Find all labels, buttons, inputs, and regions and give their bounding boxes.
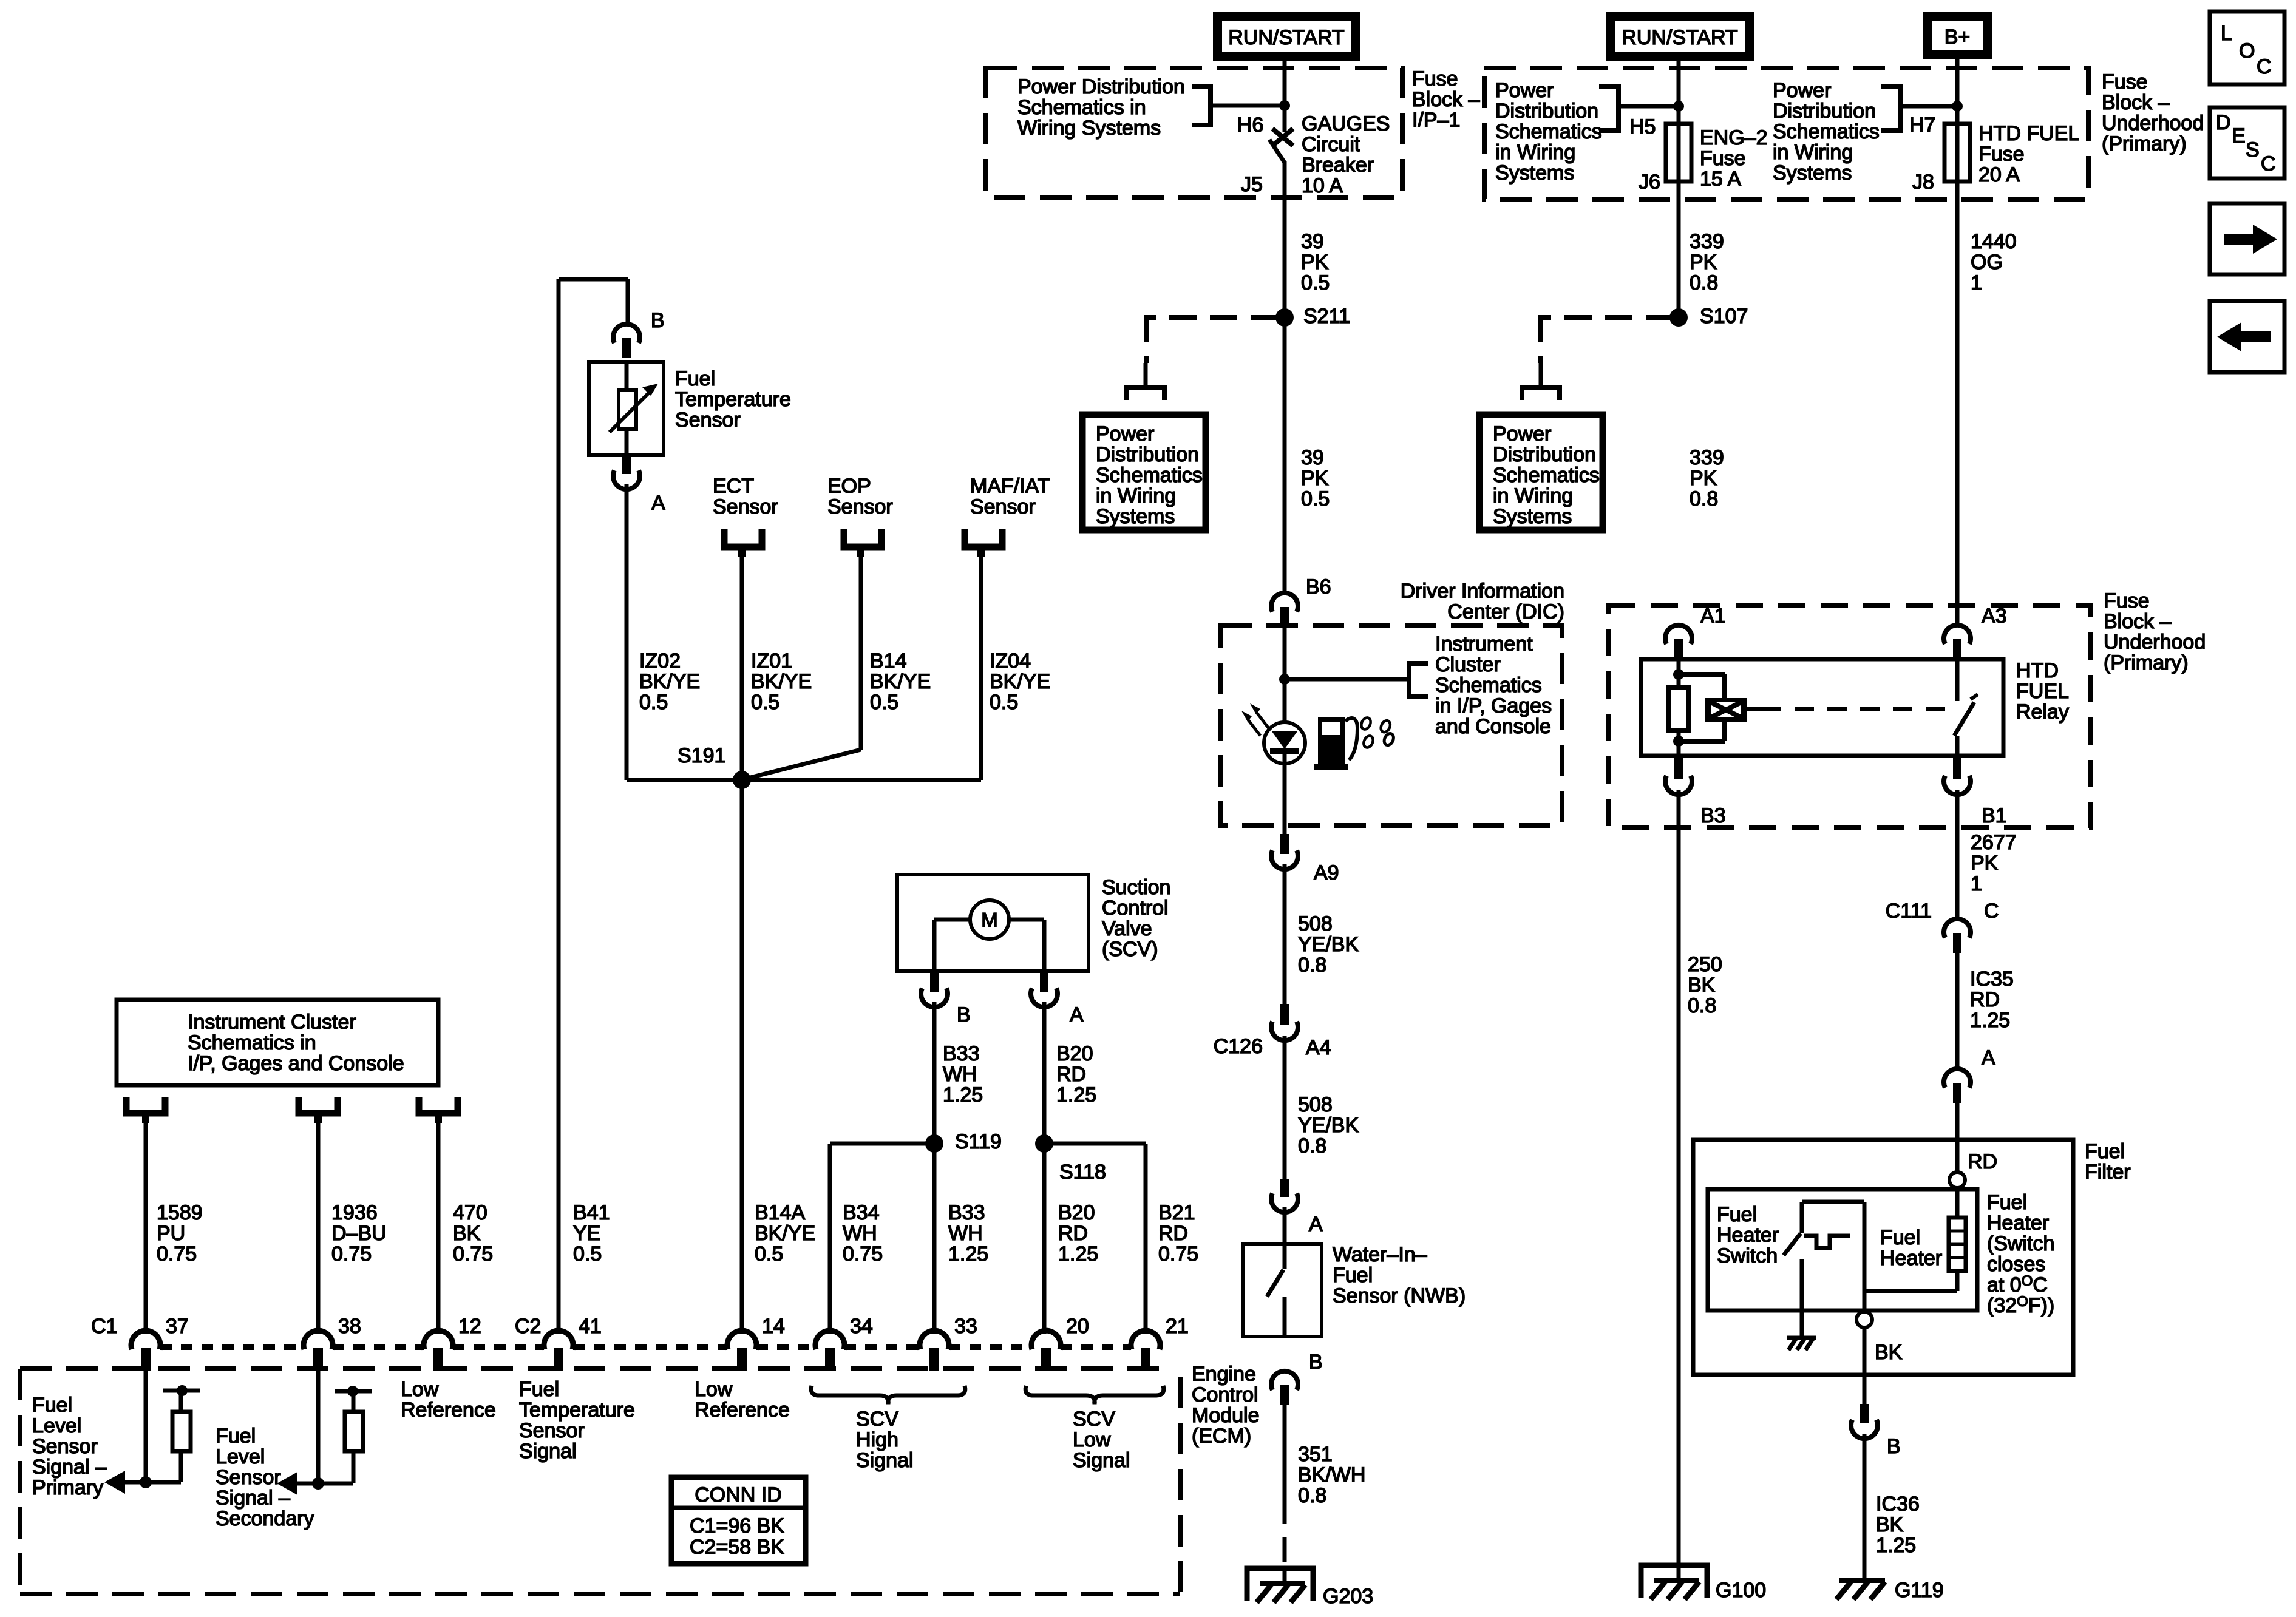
svg-text:21: 21 — [1166, 1315, 1189, 1338]
svg-text:H5: H5 — [1629, 115, 1656, 138]
svg-text:B33WH1.25: B33WH1.25 — [948, 1201, 988, 1266]
svg-text:RD: RD — [1968, 1150, 1997, 1173]
wire lamp to A9 — [1283, 753, 1287, 835]
fuel heater switch — [1800, 1202, 1804, 1233]
wire B1 to C111 — [1955, 790, 1960, 920]
node junction H7 feed — [1952, 101, 1963, 112]
connector C126/A4 — [1280, 1004, 1289, 1025]
wire RUN/START-1 to breaker — [1283, 61, 1287, 132]
svg-text:G203: G203 — [1323, 1585, 1373, 1608]
connector B1 — [1953, 756, 1961, 779]
suction control valve box — [897, 875, 1089, 971]
svg-text:A4: A4 — [1306, 1036, 1331, 1059]
connector face cluster pin 12 — [419, 1097, 458, 1113]
wire B to G119 — [1863, 1434, 1867, 1581]
svg-text:C2=58 BK: C2=58 BK — [690, 1536, 784, 1559]
connector face cluster pin 37 — [126, 1097, 165, 1113]
bracket instrument cluster (DIC) — [1409, 663, 1428, 696]
ECM dashed box — [20, 1366, 1173, 1371]
ECM connector pin 20 — [1031, 1331, 1061, 1349]
node S191 — [733, 771, 751, 789]
wire pin 37 into ECM — [144, 1367, 148, 1482]
svg-text:S211: S211 — [1303, 305, 1350, 328]
svg-text:J5: J5 — [1241, 173, 1263, 196]
wire C111 to A — [1955, 953, 1960, 1070]
wire S211 to B6 — [1283, 317, 1287, 594]
fuse ENG-2 15A — [1666, 124, 1691, 181]
wire fuse HTD FUEL down to relay A3 — [1955, 181, 1960, 626]
wire BK to connector B — [1863, 1327, 1867, 1405]
dashed branch from S107 to power distribution box — [1541, 315, 1673, 320]
svg-text:C: C — [2257, 55, 2272, 78]
svg-text:RUN/START: RUN/START — [1622, 26, 1737, 49]
node junction H6 feed — [1279, 100, 1290, 111]
svg-text:33: 33 — [954, 1315, 977, 1338]
svg-text:A3: A3 — [1982, 605, 2007, 628]
svg-text:C2: C2 — [515, 1315, 541, 1338]
svg-text:C: C — [2261, 152, 2276, 175]
svg-text:G119: G119 — [1895, 1579, 1944, 1602]
wire cluster to pin 38 — [316, 1120, 321, 1334]
svg-text:B33WH1.25: B33WH1.25 — [943, 1042, 983, 1107]
svg-text:BK: BK — [1875, 1341, 1903, 1364]
wire A9 to C126 — [1283, 864, 1287, 1005]
mini ground (heater switch) — [1787, 1336, 1816, 1340]
SCV motor — [970, 900, 1009, 939]
svg-text:41: 41 — [579, 1315, 602, 1338]
svg-text:E: E — [2232, 124, 2246, 147]
fuse block underhood dashed box — [1484, 68, 2088, 199]
svg-text:34: 34 — [850, 1315, 873, 1338]
svg-text:G100: G100 — [1716, 1579, 1766, 1602]
fuel filter outer box — [1693, 1140, 2073, 1375]
svg-text:14: 14 — [762, 1315, 785, 1338]
relay dashed box (fuse block underhood) — [1608, 605, 2091, 828]
wire pin 38 into ECM — [316, 1367, 321, 1483]
power feed box RUN/START (I/P fuse block feed) — [1213, 12, 1360, 61]
relay HTD FUEL solid box — [1641, 659, 2003, 756]
svg-text:37: 37 — [166, 1315, 189, 1338]
svg-text:L: L — [2221, 22, 2232, 45]
ECM connector pin 37 — [131, 1331, 160, 1349]
node S119 — [925, 1134, 943, 1153]
svg-text:C: C — [1984, 900, 1999, 923]
connector B fuel temp sensor — [613, 324, 640, 343]
svg-text:O: O — [2239, 39, 2255, 63]
connector A SCV — [1040, 971, 1048, 992]
wire S119 to pin 33 — [932, 1144, 937, 1334]
fuel heater inner box — [1708, 1189, 1977, 1310]
fuel level sender resistor (secondary) — [318, 1482, 353, 1486]
solid box Power Distribution Schematics (left) — [1082, 415, 1206, 530]
connector B6 — [1271, 593, 1298, 612]
relay actuator dashed line — [1747, 707, 1762, 711]
wire B3 to G100 — [1677, 790, 1681, 1581]
wire breaker to S211 — [1283, 161, 1287, 317]
connector face EOP sensor — [844, 529, 881, 547]
svg-text:B1: B1 — [1982, 804, 2007, 827]
ground G119 — [1839, 1578, 1885, 1583]
ECM connector dotted line — [160, 1344, 304, 1350]
svg-text:A9: A9 — [1314, 861, 1339, 884]
svg-text:S191: S191 — [678, 744, 725, 767]
connector face ECT sensor — [724, 529, 762, 547]
connector A water-in-fuel — [1280, 1179, 1289, 1197]
svg-text:EngineControlModule(ECM): EngineControlModule(ECM) — [1192, 1363, 1260, 1448]
wire B+ into fuse — [1955, 59, 1960, 124]
svg-text:C111: C111 — [1886, 900, 1932, 923]
wire fuse ENG-2 to S107 — [1677, 181, 1681, 317]
ground G100 — [1641, 1565, 1707, 1598]
svg-text:H6: H6 — [1237, 114, 1263, 137]
svg-text:20: 20 — [1066, 1315, 1089, 1338]
connector A9 — [1280, 834, 1289, 854]
svg-text:S107: S107 — [1700, 305, 1748, 328]
svg-text:RUN/START: RUN/START — [1228, 26, 1344, 49]
circuit breaker H6 (X and blade) — [1272, 129, 1293, 146]
svg-text:A: A — [1309, 1213, 1323, 1236]
wire SCV B to S119 — [932, 1002, 937, 1144]
connector A1 — [1665, 625, 1692, 644]
svg-text:C1: C1 — [91, 1315, 117, 1338]
connector B SCV — [930, 971, 939, 992]
fuel pump icon — [1318, 717, 1345, 768]
connector A fuel filter — [1944, 1069, 1971, 1088]
indicator lamp (LED) fuel warning — [1264, 722, 1305, 764]
wire S191 to pin 14 — [740, 780, 744, 1334]
terminal RD circle — [1949, 1172, 1965, 1188]
svg-text:B: B — [651, 309, 665, 332]
ECM connector pin 34 — [815, 1331, 844, 1349]
svg-text:B: B — [1309, 1351, 1323, 1374]
wire A to water sensor — [1283, 1207, 1287, 1244]
DIC dashed box — [1220, 625, 1562, 825]
fuse HTD FUEL 20A — [1944, 124, 1970, 181]
svg-text:S118: S118 — [1059, 1161, 1106, 1184]
fuel temperature sensor box — [589, 362, 664, 455]
terminal BK circle — [1856, 1312, 1872, 1327]
svg-text:A1: A1 — [1700, 605, 1726, 628]
power feed box B+ — [1923, 12, 1992, 59]
svg-text:A: A — [1982, 1046, 1995, 1070]
fuel heater element — [1955, 1188, 1960, 1218]
connector C111/C — [1944, 919, 1971, 938]
ECM connector pin 12 — [424, 1331, 453, 1349]
svg-text:A: A — [1070, 1003, 1084, 1026]
wire B6 to lamp — [1283, 625, 1287, 722]
dashed wire to G203 — [1283, 1499, 1287, 1568]
svg-text:S: S — [2246, 138, 2260, 161]
svg-text:12: 12 — [458, 1315, 481, 1338]
ECM connector pin 41 — [544, 1331, 573, 1349]
branch S118 to pin 21 — [1044, 1142, 1146, 1146]
connector B (fuel heater) — [1860, 1404, 1869, 1423]
wire RUN/START-2 into fuse — [1677, 61, 1681, 124]
legend box LOC — [2210, 12, 2284, 84]
svg-text:B: B — [1887, 1435, 1901, 1458]
svg-text:FuelFilter: FuelFilter — [2085, 1140, 2131, 1184]
svg-text:B: B — [957, 1003, 971, 1026]
node S107 — [1669, 308, 1688, 327]
connector face MAF/IAT sensor — [965, 529, 1002, 547]
legend box arrow-right — [2210, 203, 2284, 274]
svg-text:B34WH0.75: B34WH0.75 — [843, 1201, 883, 1266]
svg-text:H7: H7 — [1909, 114, 1935, 137]
wire B to label 351 — [1283, 1402, 1287, 1499]
fuel level sensor signal primary arrow — [124, 1480, 146, 1485]
svg-text:D: D — [2216, 111, 2231, 134]
wire fuel temp A to S191 — [625, 484, 629, 780]
CONN ID table — [671, 1477, 806, 1564]
wire SCV A to S118 — [1042, 1002, 1047, 1144]
ground G203 — [1247, 1568, 1313, 1601]
wire MAF/IAT to S191 — [979, 552, 983, 780]
wire A to fuel filter — [1955, 1103, 1960, 1178]
connector B ECM pin — [1271, 1371, 1298, 1390]
brace SCV low signal — [1025, 1386, 1164, 1404]
water-in-fuel sensor box — [1243, 1244, 1322, 1337]
relay coil branch — [1677, 659, 1681, 688]
connector A fuel temp sensor — [622, 455, 631, 474]
svg-text:C126: C126 — [1214, 1035, 1263, 1058]
svg-text:J6: J6 — [1639, 171, 1660, 194]
bracket to H7 — [1881, 87, 1901, 131]
fuel level sender resistor (primary) — [146, 1480, 181, 1485]
svg-text:B3: B3 — [1700, 804, 1726, 827]
water-in-fuel switch — [1283, 1244, 1287, 1269]
ECM connector pin 21 — [1131, 1331, 1160, 1349]
fuse block I/P-1 dashed box — [986, 68, 1402, 197]
node S211 — [1275, 308, 1294, 327]
node junction H5 feed — [1673, 101, 1684, 112]
svg-text:J8: J8 — [1912, 171, 1934, 194]
legend box DESC — [2210, 107, 2284, 178]
svg-text:38: 38 — [338, 1315, 361, 1338]
wire EOP to S191 — [859, 552, 863, 750]
node S118 — [1035, 1134, 1053, 1153]
wire DIC branch to bracket — [1285, 677, 1409, 682]
relay switch — [1955, 659, 1960, 701]
legend box arrow-left — [2210, 301, 2284, 372]
node DIC branch — [1279, 674, 1290, 685]
connector face cluster pin 38 — [299, 1097, 338, 1113]
bracket to H6 — [1192, 86, 1211, 125]
svg-text:CONN ID: CONN ID — [695, 1483, 782, 1507]
svg-text:A: A — [651, 492, 665, 515]
dashed branch from S211 to power distribution box — [1147, 315, 1278, 320]
svg-text:C1=96 BK: C1=96 BK — [690, 1514, 784, 1537]
svg-text:S119: S119 — [955, 1130, 1002, 1153]
branch S119 to pin 34 — [830, 1142, 934, 1146]
connector B3 — [1674, 756, 1683, 779]
power feed box RUN/START (underhood feed) — [1606, 12, 1754, 61]
connector A3 — [1944, 625, 1971, 644]
ECM connector pin 33 — [920, 1331, 949, 1349]
bracket to H5 — [1599, 87, 1618, 131]
instrument cluster solid box — [117, 1000, 438, 1085]
wire S118 to pin 20 — [1042, 1144, 1047, 1334]
ECM connector pin 38 — [304, 1331, 333, 1349]
ECM connector pin 14 — [727, 1331, 756, 1349]
svg-text:B+: B+ — [1944, 25, 1971, 49]
fuel temp thermistor — [625, 362, 629, 455]
brace SCV high signal — [811, 1386, 965, 1404]
wire C126 to A — [1283, 1036, 1287, 1180]
solid box Power Distribution Schematics (middle) — [1479, 415, 1603, 530]
wire fuel temp sensor loop to pin 41 — [557, 279, 561, 1334]
svg-text:B6: B6 — [1306, 575, 1331, 598]
wire cluster to pin 12 — [436, 1120, 441, 1334]
wire cluster to pin 37 — [144, 1120, 148, 1334]
svg-text:M: M — [981, 909, 998, 931]
wire ECT to S191 — [740, 552, 744, 780]
fuel level sensor signal secondary arrow — [296, 1482, 318, 1486]
